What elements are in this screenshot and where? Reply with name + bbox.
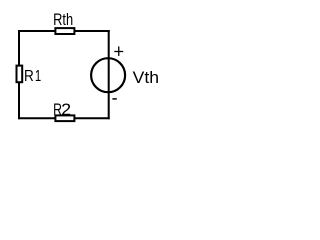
minus sign [112, 98, 116, 100]
plus sign [114, 51, 123, 53]
svg-text:Vth: Vth [133, 68, 159, 87]
resistor R1 [17, 66, 23, 83]
svg-text:1: 1 [35, 68, 41, 85]
wire right [108, 30, 110, 119]
wire top [18, 30, 110, 32]
resistor R2 [55, 115, 74, 121]
wire left [18, 30, 20, 119]
svg-text:2: 2 [61, 101, 71, 119]
wire bottom [18, 117, 110, 119]
svg-text:R: R [24, 68, 34, 85]
svg-text:Rth: Rth [53, 10, 73, 29]
resistor Rth [55, 28, 74, 34]
voltage source Vth [91, 58, 125, 92]
